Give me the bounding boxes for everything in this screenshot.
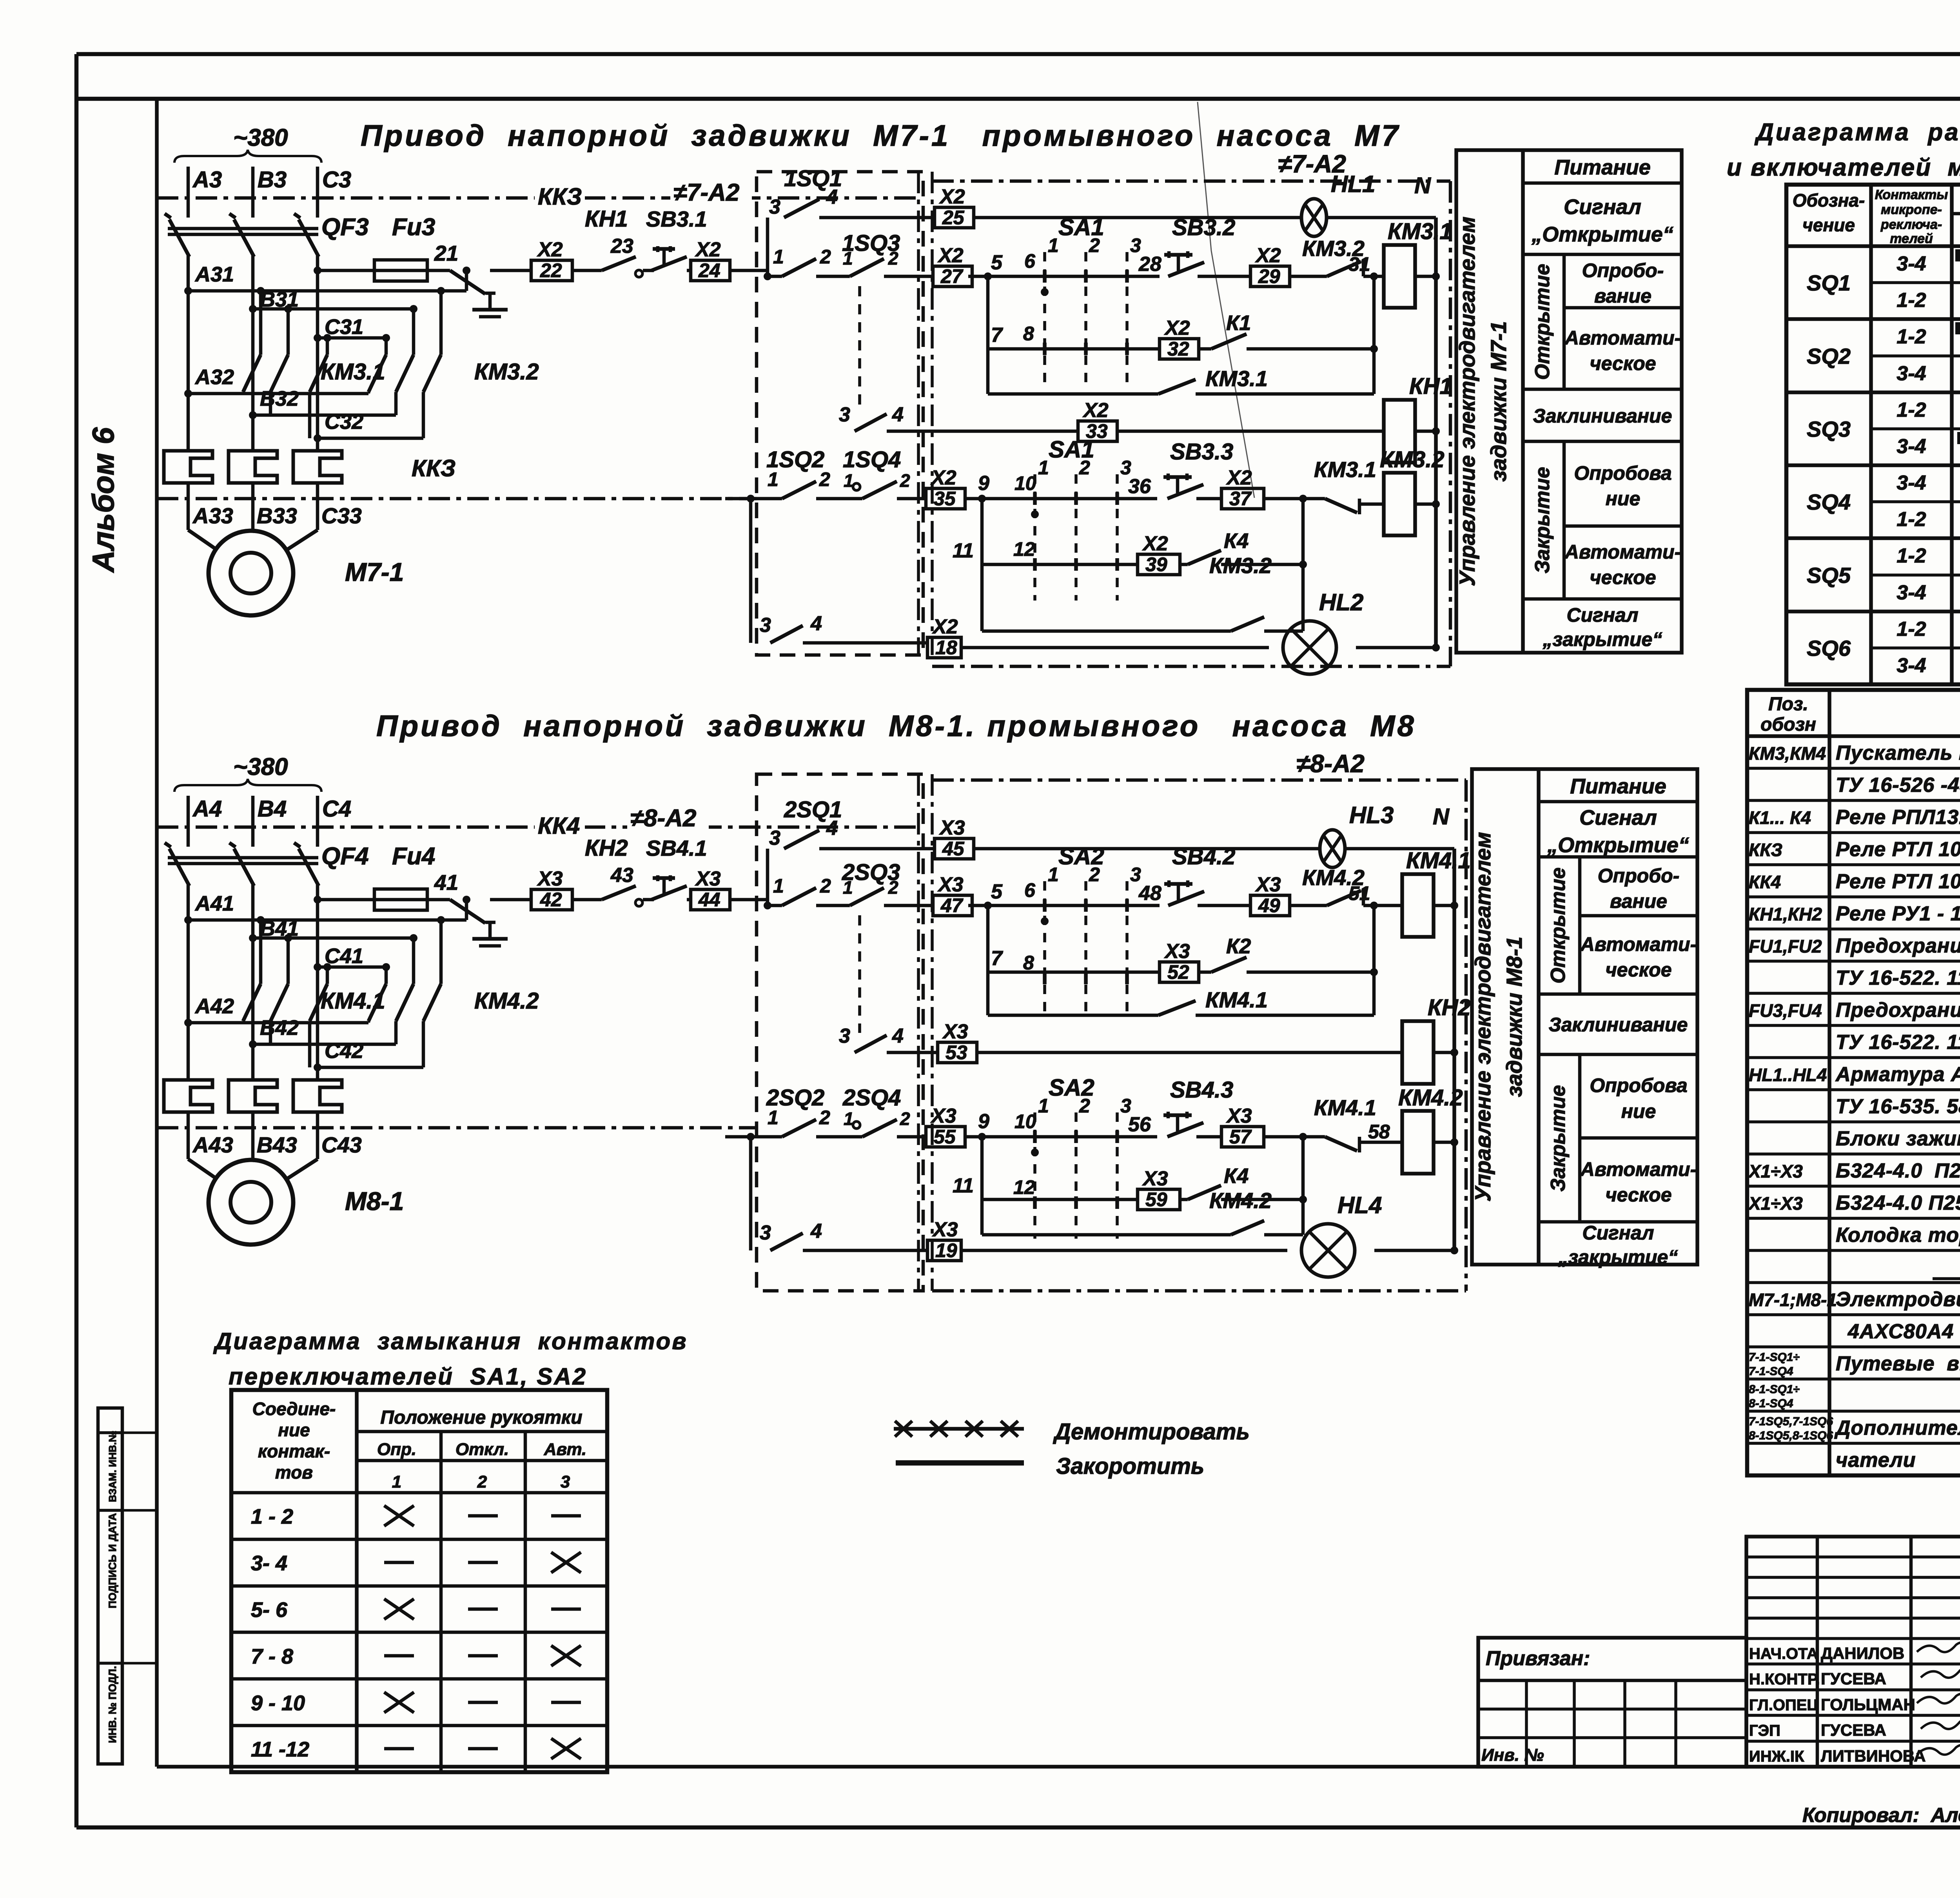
parts list (specification) table (1747, 690, 1960, 1475)
limit switch box 1SQ (dashed) (757, 172, 923, 655)
wire signal close row (961, 1249, 1287, 1252)
svg-text:7-1-SQ1÷: 7-1-SQ1÷ (1749, 1351, 1800, 1364)
svg-text:32: 32 (1167, 338, 1189, 360)
svg-text:1SQ4: 1SQ4 (843, 447, 901, 472)
svg-text:Колодка торцевая КТ БУ ТУ 16-: Колодка торцевая КТ БУ ТУ 16-526.462-79 (1836, 1224, 1960, 1247)
svg-text:А42: А42 (194, 994, 234, 1018)
svg-text:QF4: QF4 (321, 843, 369, 870)
motor branch wires А42 В42 С42 (184, 994, 423, 1071)
svg-text:~380: ~380 (233, 124, 288, 151)
svg-text:11: 11 (953, 539, 974, 562)
phase wires down to thermal elements (188, 256, 318, 451)
svg-text:КН1: КН1 (1409, 374, 1452, 399)
svg-text:ческое: ческое (1590, 566, 1656, 588)
svg-text:4АХС80А4 УЗ: 4АХС80А4 УЗ (1836, 1320, 1960, 1343)
relay contact КН1 (572, 206, 642, 277)
svg-text:В41: В41 (260, 917, 299, 940)
svg-text:ГУСЕВА: ГУСЕВА (1821, 1721, 1886, 1739)
wires to motor А33 В33 С33 (188, 483, 362, 550)
svg-text:Открытие: Открытие (1531, 264, 1554, 380)
svg-text:3-4: 3-4 (1896, 654, 1926, 677)
ground symbol (472, 293, 508, 317)
svg-text:1: 1 (773, 246, 784, 268)
control function table М8-1 (1470, 769, 1697, 1268)
svg-text:КМ3.2: КМ3.2 (1380, 447, 1445, 472)
svg-text:22: 22 (540, 259, 562, 281)
wire open row branch 2 (988, 276, 1160, 349)
wire open row (968, 880, 1160, 909)
svg-text:X3: X3 (930, 1105, 956, 1127)
wire open row branch 2 (988, 905, 1160, 972)
svg-text:Автомати-: Автомати- (1580, 933, 1697, 955)
svg-text:Предохранитель ПРС 6УЗ-П Iпл.: Предохранитель ПРС 6УЗ-П Iпл.вст.-1А (1836, 999, 1960, 1022)
svg-text:ТУ 16-522. 112-74: ТУ 16-522. 112-74 (1836, 1031, 1960, 1054)
svg-text:В43: В43 (257, 1132, 297, 1157)
svg-text:вание: вание (1594, 285, 1651, 307)
circuit breaker QF4 (165, 843, 435, 886)
svg-text:4: 4 (810, 1220, 822, 1243)
svg-text:КМ4.1: КМ4.1 (1406, 848, 1471, 873)
svg-text:2: 2 (888, 877, 898, 898)
relay contact К1 (1199, 272, 1378, 349)
svg-text:ГОЛЬЦМАН: ГОЛЬЦМАН (1821, 1695, 1915, 1714)
svg-text:23: 23 (610, 235, 633, 258)
svg-text:2: 2 (477, 1472, 487, 1492)
wire signal open row (974, 847, 1320, 851)
ground symbol (472, 922, 508, 946)
svg-text:2: 2 (900, 1109, 910, 1129)
wire to terminal (1196, 1135, 1221, 1139)
wire signal close row (961, 646, 1269, 650)
motor branch wires А32 В32 С32 (184, 365, 423, 442)
svg-text:27: 27 (940, 265, 964, 287)
wire lamp to N (1345, 847, 1454, 851)
svg-text:HL4: HL4 (1338, 1192, 1382, 1218)
left inventory stamp strip (98, 1408, 157, 1764)
pushbutton SB4.2 (1164, 844, 1235, 905)
control fuse Fu3 (314, 241, 458, 281)
svg-text:обозн: обозн (1760, 714, 1816, 735)
svg-text:М7-1: М7-1 (345, 557, 404, 586)
svg-text:X2: X2 (930, 466, 956, 489)
svg-text:Опробова: Опробова (1590, 1074, 1687, 1096)
svg-text:X2: X2 (1255, 244, 1281, 267)
svg-text:X3: X3 (695, 867, 721, 890)
svg-text:Обозна-: Обозна- (1793, 190, 1865, 210)
svg-text:X3: X3 (932, 1218, 958, 1241)
svg-text:47: 47 (940, 895, 964, 916)
svg-text:X3: X3 (1226, 1105, 1252, 1127)
pushbutton SB4.3 (1163, 1077, 1233, 1137)
svg-text:А33: А33 (192, 503, 233, 528)
svg-text:Закоротить: Закоротить (1056, 1453, 1204, 1479)
svg-text:3: 3 (760, 614, 771, 637)
svg-text:2: 2 (1089, 234, 1100, 256)
wire to NC aux contact (1290, 275, 1327, 278)
svg-text:37: 37 (1229, 488, 1252, 510)
svg-text:Сигнал: Сигнал (1579, 806, 1657, 829)
svg-text:ние: ние (1621, 1100, 1656, 1122)
svg-text:реключа-: реключа- (1880, 217, 1942, 232)
svg-text:3: 3 (839, 1025, 850, 1047)
limit switch 2SQ3 contacts 1-2 (764, 860, 933, 1033)
svg-text:ВЗАМ. ИНВ.№: ВЗАМ. ИНВ.№ (107, 1431, 118, 1502)
limit switches 1SQ2 1SQ4 (725, 447, 926, 503)
svg-text:10: 10 (1014, 1110, 1036, 1132)
svg-text:43: 43 (610, 864, 633, 887)
svg-text:М8-1: М8-1 (345, 1187, 404, 1216)
svg-text:А32: А32 (194, 365, 234, 389)
relay contact К4 (1180, 499, 1307, 568)
svg-text:Опробова: Опробова (1574, 462, 1671, 484)
cabinet wall dash-dot corridor (917, 774, 920, 1291)
svg-text:микропе-: микропе- (1881, 202, 1942, 217)
svg-text:SB4.3: SB4.3 (1170, 1077, 1233, 1103)
svg-text:X2: X2 (1142, 532, 1168, 555)
svg-text:КМ4.1: КМ4.1 (1314, 1095, 1376, 1120)
svg-text:С43: С43 (321, 1132, 362, 1157)
svg-text:8-1-SQ4: 8-1-SQ4 (1749, 1397, 1793, 1410)
svg-text:2: 2 (1089, 864, 1100, 885)
power feed ~380V for М7-1 (174, 124, 351, 218)
svg-text:Привод напорной задвижки М8: Привод напорной задвижки М8-1. промывног… (376, 709, 1416, 743)
wire to terminal (1198, 275, 1250, 278)
wire coil to N (1434, 904, 1454, 907)
contactor КМ3.1 main contacts (243, 287, 385, 392)
svg-text:А3: А3 (192, 167, 222, 192)
svg-text:3- 4: 3- 4 (251, 1551, 287, 1575)
svg-text:Опр.: Опр. (377, 1440, 416, 1459)
svg-text:ИНВ. № ПОДЛ.: ИНВ. № ПОДЛ. (107, 1666, 118, 1743)
svg-text:11 -12: 11 -12 (251, 1738, 309, 1761)
svg-text:ческое: ческое (1590, 352, 1656, 374)
control function table М7-1 (1455, 150, 1682, 653)
svg-text:1-2: 1-2 (1896, 544, 1926, 567)
terminal X3:52 (1160, 962, 1199, 982)
svg-text:49: 49 (1258, 895, 1280, 916)
terminal X3:49 (1250, 895, 1290, 916)
limit switch operating diagram table (1786, 185, 1960, 684)
svg-text:SB3.3: SB3.3 (1170, 439, 1233, 465)
svg-text:5: 5 (991, 880, 1003, 903)
svg-text:X2: X2 (1082, 399, 1109, 422)
svg-text:19: 19 (935, 1239, 957, 1261)
svg-text:С42: С42 (325, 1039, 363, 1063)
svg-text:SQ6: SQ6 (1807, 636, 1851, 660)
svg-text:SQ3: SQ3 (1807, 417, 1851, 441)
svg-text:Автомати-: Автомати- (1564, 541, 1681, 563)
svg-text:7 - 8: 7 - 8 (251, 1645, 293, 1668)
motor М7-1 (209, 531, 404, 615)
svg-text:29: 29 (1258, 265, 1280, 287)
svg-text:3-4: 3-4 (1896, 252, 1926, 275)
svg-text:1: 1 (1048, 234, 1059, 256)
wire close row (965, 1110, 1157, 1141)
contactor/relay coil КМ3.1 (1384, 219, 1452, 308)
svg-text:X2: X2 (1226, 466, 1252, 489)
svg-text:Диаграмма работы конечных в: Диаграмма работы конечных выключателей (1754, 119, 1960, 146)
svg-text:12: 12 (1013, 1176, 1035, 1198)
svg-text:ГЛ.ОПЕЦ: ГЛ.ОПЕЦ (1749, 1697, 1818, 1714)
svg-text:ТУ 16-522. 112-74: ТУ 16-522. 112-74 (1836, 967, 1960, 989)
N neutral bus (1434, 218, 1438, 648)
svg-text:Закрытие: Закрытие (1547, 1085, 1570, 1192)
contactor/relay coil КМ4.1 (1402, 848, 1471, 937)
terminal X3:47 (933, 895, 972, 916)
svg-text:X3: X3 (1164, 940, 1190, 963)
svg-text:3-4: 3-4 (1896, 581, 1926, 604)
svg-text:4: 4 (826, 186, 838, 209)
svg-text:задвижки М7-1: задвижки М7-1 (1486, 321, 1511, 481)
terminal X2:37 (1221, 488, 1264, 509)
svg-text:Электродвигатель N = 1.3кВт: Электродвигатель N = 1.3кВт~380В (1836, 1288, 1960, 1311)
svg-text:Копировал: Алешикова: Копировал: Алешикова (1802, 1804, 1960, 1827)
selector switch SA2 (1023, 843, 1141, 1014)
terminal X2:33 (jam row) (1078, 421, 1117, 441)
terminal X3:44 (687, 867, 768, 911)
svg-text:4: 4 (810, 612, 822, 635)
svg-text:А31: А31 (194, 263, 234, 286)
svg-text:Сигнал: Сигнал (1564, 195, 1641, 219)
svg-text:4: 4 (826, 817, 838, 840)
svg-text:X3: X3 (942, 1020, 968, 1043)
svg-text:Fu4: Fu4 (392, 843, 435, 870)
NC aux contact КМ3.2 (1302, 236, 1384, 276)
thermal relay heaters ККЗ (164, 451, 456, 483)
svg-text:HL2: HL2 (1319, 589, 1363, 615)
svg-text:11: 11 (953, 1174, 974, 1197)
limit switch bottom contact 3-4 (751, 1137, 927, 1250)
svg-text:ТУ 16-535. 582-76: ТУ 16-535. 582-76 (1836, 1095, 1960, 1118)
cabinet boundary (dash-dot) bottom (157, 1126, 757, 1130)
svg-text:1: 1 (768, 468, 779, 490)
svg-text:~380: ~380 (233, 753, 288, 780)
svg-text:2: 2 (1079, 457, 1090, 479)
svg-text:Питание: Питание (1554, 156, 1651, 179)
svg-text:24: 24 (698, 259, 720, 281)
wire to NC aux contact (1290, 904, 1327, 907)
svg-text:52: 52 (1167, 961, 1189, 983)
self-hold contact КМ4.1 (988, 968, 1378, 1015)
svg-text:Автомати-: Автомати- (1564, 327, 1681, 349)
svg-text:X2: X2 (537, 238, 563, 261)
svg-text:Привод напорной задвижки М7: Привод напорной задвижки М7-1 промывного… (361, 119, 1401, 152)
svg-text:3: 3 (769, 196, 780, 218)
terminal X2:35 (926, 488, 965, 509)
svg-text:Инв. №: Инв. № (1481, 1746, 1544, 1765)
control box boundary dash-dot (932, 778, 1466, 782)
svg-text:К4: К4 (1224, 529, 1249, 553)
svg-text:2: 2 (819, 468, 830, 490)
svg-text:8-1SQ5,8-1SQ6: 8-1SQ5,8-1SQ6 (1749, 1429, 1833, 1442)
svg-text:А41: А41 (194, 892, 234, 915)
svg-text:М7-1;М8-1: М7-1;М8-1 (1749, 1290, 1837, 1310)
title block (1478, 1638, 1746, 1767)
svg-text:1: 1 (843, 877, 853, 898)
svg-text:1 - 2: 1 - 2 (251, 1505, 293, 1528)
contactor/relay coil КМ4.2 (1398, 1085, 1463, 1174)
self-hold contact КМ3.2 (close) (982, 553, 1303, 631)
svg-text:Блоки зажимов ТУ 16-526.462-79: Блоки зажимов ТУ 16-526.462-79 (1836, 1127, 1960, 1150)
terminal X3:19 (927, 1240, 961, 1261)
svg-text:6: 6 (1024, 250, 1036, 272)
svg-text:5: 5 (991, 251, 1003, 274)
selector switch SA1 (1013, 436, 1131, 601)
svg-text:ГУСЕВА: ГУСЕВА (1821, 1669, 1886, 1688)
circuit breaker QF3 (165, 214, 435, 257)
svg-text:1-2: 1-2 (1896, 289, 1926, 312)
svg-text:10: 10 (1014, 472, 1036, 494)
svg-text:9: 9 (978, 1110, 989, 1133)
svg-text:7: 7 (991, 947, 1003, 970)
terminal X3:45 (935, 838, 974, 859)
svg-text:Реле РПЛ1310*4 И~220ВТУ16-523: Реле РПЛ1310*4 И~220ВТУ16-523.554-78 (1836, 806, 1960, 829)
svg-text:QF3: QF3 (321, 214, 369, 241)
svg-text:ДАНИЛОВ: ДАНИЛОВ (1821, 1644, 1904, 1662)
svg-text:1: 1 (773, 875, 784, 897)
svg-text:ИНЖ.IК: ИНЖ.IК (1749, 1748, 1804, 1765)
footer annotations (1802, 1778, 1960, 1827)
svg-text:КН2: КН2 (585, 835, 628, 861)
svg-text:3-4: 3-4 (1896, 362, 1926, 385)
svg-text:X3: X3 (939, 817, 965, 839)
svg-text:Б324-4.0 П25 В/В УЗ-10: Б324-4.0 П25 В/В УЗ-10 (1836, 1192, 1960, 1214)
svg-text:3: 3 (760, 1221, 771, 1244)
limit switch bottom contact 3-4 (751, 499, 927, 643)
svg-text:КК4: КК4 (1749, 872, 1781, 892)
svg-text:Опробо-: Опробо- (1598, 865, 1680, 887)
limit switch 1SQ1 (768, 166, 935, 276)
signal lamp HL1 (1301, 171, 1375, 236)
svg-text:6: 6 (1024, 879, 1036, 901)
SA1/SA2 contact closure table (231, 1390, 607, 1772)
svg-text:КК4: КК4 (538, 813, 580, 839)
svg-text:ческое: ческое (1605, 959, 1671, 981)
pushbutton SB3.1 (643, 207, 707, 270)
scan crease artifact (1198, 102, 1254, 498)
signal lamp HL2 (1283, 589, 1363, 674)
terminal X2:27 (933, 266, 972, 287)
wires to motor А43 В43 С43 (188, 1112, 362, 1179)
terminal X2:32 (1160, 339, 1199, 359)
svg-text:1: 1 (1038, 1095, 1049, 1117)
svg-text:С3: С3 (322, 167, 351, 192)
svg-text:А4: А4 (192, 796, 222, 822)
svg-text:Демонтировать: Демонтировать (1053, 1419, 1250, 1444)
svg-text:9 - 10: 9 - 10 (251, 1691, 305, 1715)
wire signal open row (974, 216, 1301, 220)
svg-text:SQ1: SQ1 (1807, 270, 1851, 295)
svg-text:7-1SQ5,7-1SQ6: 7-1SQ5,7-1SQ6 (1749, 1415, 1833, 1428)
svg-text:≠8-А2: ≠8-А2 (630, 805, 696, 832)
svg-text:55: 55 (934, 1126, 956, 1148)
terminal X2:24 (687, 238, 768, 281)
svg-text:В32: В32 (260, 387, 299, 410)
pushbutton SB3.3 (1163, 439, 1233, 499)
svg-text:Поз.: Поз. (1768, 694, 1808, 715)
svg-text:Fu3: Fu3 (392, 214, 435, 241)
legend: short symbol (896, 1453, 1204, 1479)
svg-text:3: 3 (561, 1472, 570, 1492)
svg-text:1-2: 1-2 (1896, 618, 1926, 641)
selector switch SA1 (1023, 214, 1141, 385)
svg-text:Закрытие: Закрытие (1531, 467, 1554, 573)
svg-text:Управление электродвигателем: Управление электродвигателем (1470, 832, 1495, 1201)
terminal X3:42 (490, 867, 572, 911)
svg-text:X2: X2 (937, 244, 964, 267)
svg-text:1-2: 1-2 (1896, 399, 1926, 421)
svg-text:X3: X3 (1255, 873, 1281, 896)
svg-text:ТУ 16-526 -437-78: ТУ 16-526 -437-78 (1836, 774, 1960, 797)
svg-text:9: 9 (978, 472, 989, 495)
wire to terminal (1198, 904, 1250, 907)
svg-text:Опробо-: Опробо- (1582, 259, 1664, 281)
svg-text:„закрытие“: „закрытие“ (1558, 1246, 1678, 1268)
svg-text:КМ3.1: КМ3.1 (1205, 366, 1268, 391)
svg-text:В33: В33 (257, 503, 297, 528)
svg-text:задвижки М8-1: задвижки М8-1 (1502, 936, 1526, 1097)
svg-text:вание: вание (1610, 890, 1667, 912)
svg-text:Н.КОНТР.: Н.КОНТР. (1749, 1671, 1820, 1688)
svg-text:ЛИТВИНОВА: ЛИТВИНОВА (1821, 1747, 1926, 1765)
svg-text:контак-: контак- (258, 1441, 330, 1461)
svg-text:„Открытие“: „Открытие“ (1531, 223, 1673, 246)
svg-text:58: 58 (1368, 1121, 1390, 1143)
svg-text:В31: В31 (260, 288, 299, 311)
terminal X2:25 (935, 207, 974, 228)
svg-text:ККЗ: ККЗ (1749, 840, 1782, 860)
svg-text:2SQ4: 2SQ4 (842, 1085, 901, 1110)
svg-text:36: 36 (1128, 475, 1151, 498)
limit switch 1SQ3 contacts 3-4 (839, 403, 1078, 431)
control fuse Fu4 (314, 870, 458, 910)
svg-text:X2: X2 (932, 615, 958, 638)
svg-text:56: 56 (1128, 1113, 1151, 1136)
relay contact К4 (1180, 1137, 1307, 1203)
svg-text:4: 4 (892, 403, 904, 426)
svg-text:12: 12 (1013, 538, 1035, 560)
svg-text:КМ3.2: КМ3.2 (1209, 553, 1272, 578)
svg-text:Дополнительные путевые выклю: Дополнительные путевые выклю- (1834, 1417, 1960, 1439)
wire to NC aux contact (1264, 495, 1325, 503)
svg-text:„Открытие“: „Открытие“ (1547, 833, 1689, 857)
svg-text:Диаграмма замыкания контакто: Диаграмма замыкания контактов (213, 1328, 688, 1354)
svg-text:Контакты: Контакты (1875, 187, 1948, 202)
wire coil to N (1415, 275, 1436, 278)
svg-text:N: N (1414, 173, 1431, 198)
contactor output wires А41 В41 С41 (184, 892, 470, 971)
svg-text:28: 28 (1138, 253, 1161, 276)
terminal X2:29 (1250, 266, 1290, 287)
svg-text:2: 2 (888, 248, 898, 269)
svg-text:39: 39 (1145, 553, 1167, 575)
svg-text:FU1,FU2: FU1,FU2 (1749, 936, 1822, 956)
svg-text:SQ2: SQ2 (1807, 344, 1851, 368)
svg-text:Авт.: Авт. (544, 1440, 587, 1459)
svg-text:НАЧ.ОТА: НАЧ.ОТА (1749, 1645, 1818, 1662)
svg-text:3: 3 (839, 403, 850, 426)
phase wires down to thermal elements (188, 885, 318, 1080)
svg-text:Соедине-: Соедине- (252, 1399, 336, 1419)
contactor output wires А31 В31 С31 (184, 263, 470, 342)
wire close branch 2 (953, 499, 1138, 564)
svg-text:КН2: КН2 (1428, 995, 1471, 1020)
svg-text:X2: X2 (695, 238, 721, 261)
wire jam row to relay coil (1117, 430, 1384, 433)
signal lamp HL3 (1320, 802, 1394, 867)
svg-text:Арматура АМЕ-323. 221. 292 И: Арматура АМЕ-323. 221. 292 И~220В (1835, 1063, 1960, 1086)
svg-text:переключателей SA1, SA2: переключателей SA1, SA2 (229, 1363, 587, 1390)
